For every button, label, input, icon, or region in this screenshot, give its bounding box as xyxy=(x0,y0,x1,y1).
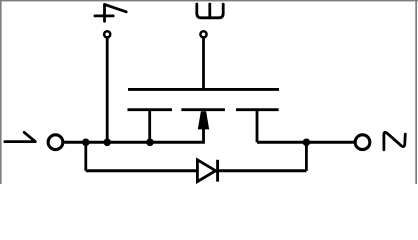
wire diode branch bottom xyxy=(86,169,307,172)
junction dot source stub xyxy=(146,139,154,147)
MOSFET gate line xyxy=(128,88,279,91)
wire pin 3 to gate xyxy=(202,38,205,89)
wire pin 4 to source rail xyxy=(106,38,109,142)
pin label 2 xyxy=(384,132,405,150)
pin label 1 xyxy=(5,132,36,141)
drain stub xyxy=(256,110,259,143)
terminal pin 1 xyxy=(48,135,63,150)
substrate arrow xyxy=(198,111,209,142)
junction dot diode right xyxy=(303,139,311,147)
wire pin 1 rail xyxy=(64,141,205,144)
terminal pin 3 xyxy=(200,31,206,37)
junction dot diode left xyxy=(82,139,90,147)
wire diode branch right rise xyxy=(305,142,308,171)
wire diode branch left drop xyxy=(84,142,87,171)
body diode D1 anode triangle xyxy=(197,160,215,182)
terminal pin 2 xyxy=(355,135,370,150)
pin label 4 xyxy=(95,4,126,21)
MOSFET channel segment right xyxy=(236,108,279,111)
body diode D1 cathode bar xyxy=(216,160,219,182)
MOSFET channel segment middle xyxy=(181,108,225,111)
MOSFET channel segment left xyxy=(128,108,173,111)
wire pin 2 rail xyxy=(257,141,354,144)
junction dot pin 4 xyxy=(103,139,111,147)
pin label 3 xyxy=(197,4,223,18)
terminal pin 4 xyxy=(104,31,110,37)
source stub xyxy=(148,110,151,143)
